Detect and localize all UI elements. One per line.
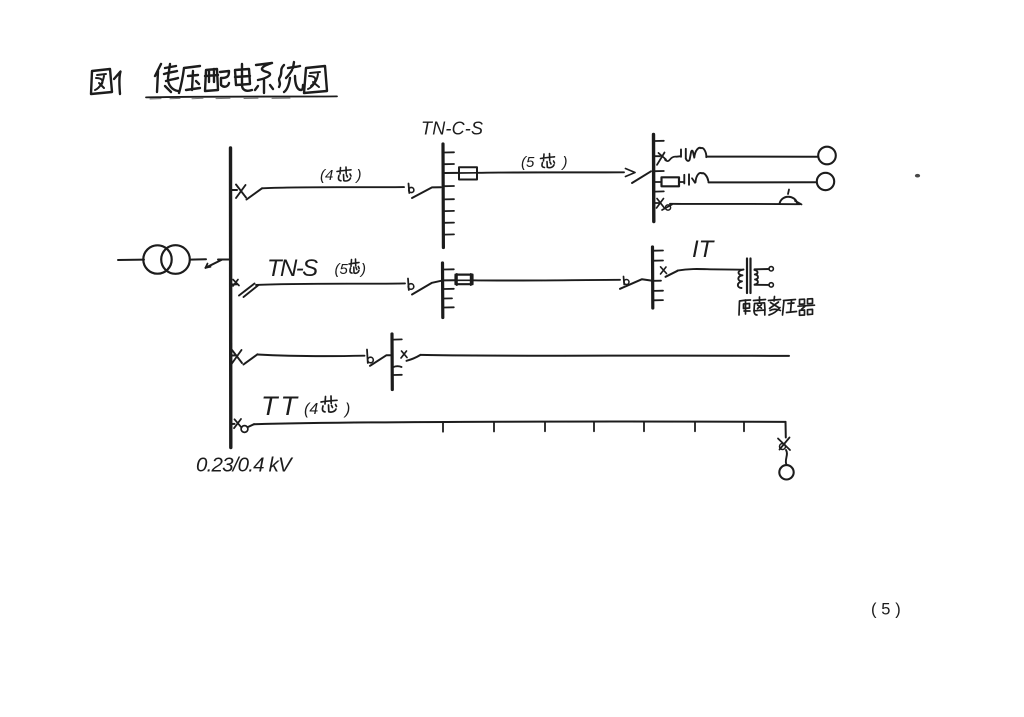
svg-text:0.23/0.4 kV: 0.23/0.4 kV xyxy=(196,454,294,477)
svg-text:TT: TT xyxy=(261,391,300,421)
svg-text:): ) xyxy=(359,261,366,278)
svg-text:IT: IT xyxy=(692,236,716,263)
svg-text:(5): (5) xyxy=(871,601,906,619)
svg-text:(4: (4 xyxy=(304,401,318,418)
svg-text:): ) xyxy=(343,401,350,418)
svg-text:(5: (5 xyxy=(521,154,535,171)
svg-text:): ) xyxy=(355,167,362,184)
svg-text:TN-C-S: TN-C-S xyxy=(421,119,483,139)
svg-text:(4: (4 xyxy=(320,167,333,184)
svg-text:(5: (5 xyxy=(335,261,349,278)
svg-text:): ) xyxy=(561,154,568,171)
svg-text:TN-S: TN-S xyxy=(267,255,318,282)
